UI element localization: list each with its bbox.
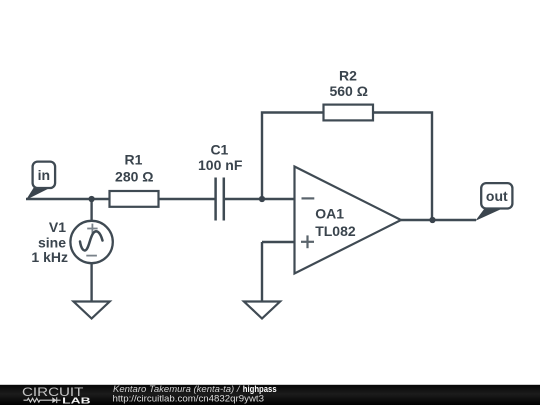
svg-text:TL082: TL082 xyxy=(315,223,356,239)
svg-text:Kentaro Takemura (kenta-ta) /: Kentaro Takemura (kenta-ta) / xyxy=(113,384,241,394)
svg-text:100 nF: 100 nF xyxy=(198,157,243,173)
svg-text:sine: sine xyxy=(38,234,66,250)
svg-text:V1: V1 xyxy=(49,219,66,235)
svg-text:http://circuitlab.com/cn4832qr: http://circuitlab.com/cn4832qr9ywt3 xyxy=(113,393,265,403)
svg-text:280 Ω: 280 Ω xyxy=(115,169,153,185)
svg-text:C1: C1 xyxy=(210,141,228,157)
svg-text:R2: R2 xyxy=(339,68,357,84)
svg-text:560 Ω: 560 Ω xyxy=(329,83,367,99)
svg-text:in: in xyxy=(38,167,50,183)
svg-text:out: out xyxy=(486,188,508,204)
svg-text:R1: R1 xyxy=(125,152,143,168)
svg-text:1 kHz: 1 kHz xyxy=(31,249,68,265)
svg-text:highpass: highpass xyxy=(243,384,277,394)
svg-text:OA1: OA1 xyxy=(315,205,344,221)
svg-text:LAB: LAB xyxy=(62,396,90,405)
